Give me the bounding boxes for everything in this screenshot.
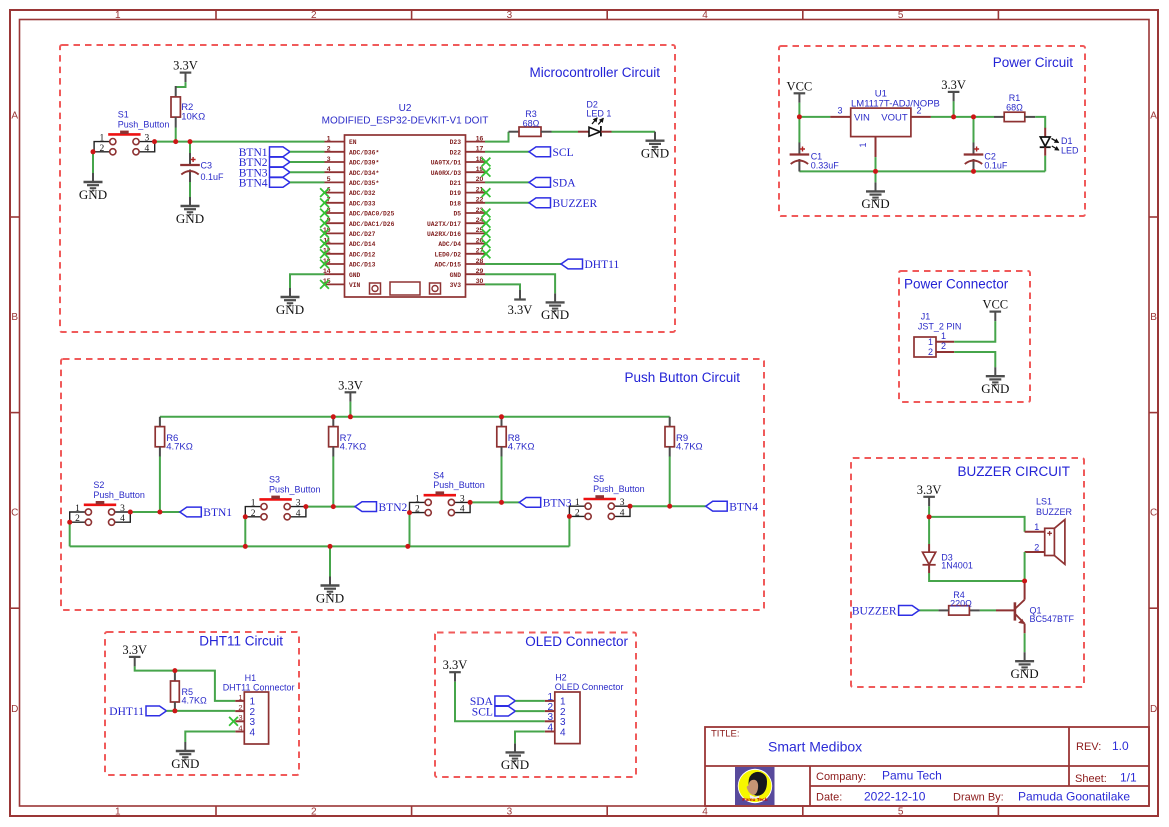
- svg-text:S3: S3: [269, 475, 280, 485]
- svg-text:REV:: REV:: [1076, 741, 1101, 753]
- svg-text:BTN4: BTN4: [729, 501, 758, 513]
- svg-text:ADC/D34*: ADC/D34*: [349, 170, 379, 177]
- svg-text:ADC/D12: ADC/D12: [349, 251, 376, 258]
- svg-text:4: 4: [702, 10, 708, 21]
- svg-text:2: 2: [75, 514, 80, 524]
- svg-text:Push Button Circuit: Push Button Circuit: [624, 370, 740, 385]
- svg-text:1: 1: [415, 494, 420, 504]
- svg-text:GND: GND: [79, 187, 107, 202]
- svg-text:Push_Button: Push_Button: [93, 490, 145, 500]
- svg-text:R1: R1: [1009, 93, 1021, 103]
- svg-text:ADC/DAC1/D26: ADC/DAC1/D26: [349, 221, 395, 228]
- svg-text:220Ω: 220Ω: [950, 598, 972, 608]
- svg-text:GND: GND: [276, 302, 304, 317]
- svg-text:SCL: SCL: [553, 147, 574, 159]
- svg-text:1N4001: 1N4001: [941, 561, 973, 571]
- svg-text:1/1: 1/1: [1120, 771, 1137, 785]
- svg-text:U2: U2: [399, 103, 412, 114]
- svg-text:VIN: VIN: [349, 282, 361, 289]
- svg-text:2022-12-10: 2022-12-10: [864, 790, 926, 804]
- svg-text:3.3V: 3.3V: [338, 378, 363, 392]
- svg-text:D18: D18: [450, 200, 462, 207]
- svg-text:BUZZER: BUZZER: [1036, 507, 1073, 517]
- svg-text:ADC/D14: ADC/D14: [349, 241, 376, 248]
- svg-text:4: 4: [327, 166, 331, 173]
- svg-text:Power Circuit: Power Circuit: [993, 55, 1074, 70]
- svg-text:3.3V: 3.3V: [508, 303, 533, 317]
- svg-text:4: 4: [702, 807, 708, 818]
- svg-text:0.1uF: 0.1uF: [984, 160, 1008, 170]
- svg-text:C: C: [1150, 507, 1157, 518]
- svg-text:D1: D1: [1061, 136, 1073, 146]
- svg-text:GND: GND: [541, 307, 569, 322]
- svg-text:GND: GND: [861, 196, 889, 211]
- svg-text:Push_Button: Push_Button: [433, 480, 485, 490]
- svg-text:MODIFIED_ESP32-DEVKIT-V1 DOIT: MODIFIED_ESP32-DEVKIT-V1 DOIT: [322, 116, 489, 127]
- svg-text:A: A: [1150, 111, 1157, 122]
- svg-text:UA0TX/D1: UA0TX/D1: [431, 160, 461, 167]
- svg-text:UA2TX/D17: UA2TX/D17: [427, 221, 461, 228]
- svg-text:1: 1: [858, 142, 868, 147]
- svg-text:Microcontroller Circuit: Microcontroller Circuit: [529, 65, 660, 80]
- svg-text:D5: D5: [453, 211, 461, 218]
- svg-text:SDA: SDA: [553, 178, 577, 190]
- svg-text:S1: S1: [118, 110, 129, 120]
- svg-text:C: C: [11, 507, 18, 518]
- svg-text:LS1: LS1: [1036, 497, 1052, 507]
- svg-text:GND: GND: [316, 590, 344, 605]
- svg-text:4: 4: [238, 723, 242, 732]
- svg-text:3: 3: [296, 499, 301, 509]
- svg-text:1: 1: [928, 337, 933, 347]
- svg-text:1: 1: [238, 693, 242, 702]
- svg-text:JST_2 PIN: JST_2 PIN: [918, 322, 962, 332]
- svg-text:4: 4: [145, 144, 150, 154]
- svg-text:Push_Button: Push_Button: [118, 119, 170, 129]
- svg-text:VIN: VIN: [854, 113, 870, 124]
- svg-text:3: 3: [837, 105, 842, 115]
- svg-text:Company:: Company:: [816, 771, 866, 783]
- svg-text:D19: D19: [450, 190, 462, 197]
- svg-text:GND: GND: [981, 381, 1009, 396]
- svg-text:ADC/D15: ADC/D15: [435, 262, 462, 269]
- svg-text:2: 2: [251, 509, 256, 519]
- svg-text:4: 4: [250, 727, 256, 738]
- svg-text:Push_Button: Push_Button: [593, 484, 645, 494]
- svg-text:B: B: [1150, 312, 1157, 323]
- svg-text:GND: GND: [349, 272, 361, 279]
- svg-text:UA2RX/D16: UA2RX/D16: [427, 231, 461, 238]
- svg-text:BTN2: BTN2: [379, 502, 408, 514]
- svg-text:1: 1: [75, 504, 80, 514]
- svg-text:3: 3: [145, 134, 150, 144]
- svg-text:3: 3: [507, 10, 513, 21]
- svg-text:S5: S5: [593, 474, 604, 484]
- svg-text:BTN4: BTN4: [239, 178, 268, 190]
- svg-text:BUZZER: BUZZER: [553, 198, 598, 210]
- svg-text:2: 2: [100, 144, 105, 154]
- svg-text:3: 3: [620, 498, 625, 508]
- svg-text:ADC/D33: ADC/D33: [349, 200, 376, 207]
- svg-text:20: 20: [476, 176, 484, 183]
- svg-text:BC547BTF: BC547BTF: [1030, 614, 1075, 624]
- svg-text:1.0: 1.0: [1112, 739, 1129, 753]
- svg-text:3.3V: 3.3V: [173, 59, 198, 73]
- svg-text:4.7KΩ: 4.7KΩ: [340, 442, 367, 453]
- svg-text:Pamu Tech: Pamu Tech: [742, 797, 767, 803]
- svg-text:10KΩ: 10KΩ: [181, 111, 205, 122]
- svg-text:VCC: VCC: [982, 298, 1008, 312]
- svg-text:D22: D22: [450, 149, 462, 156]
- svg-text:ADC/D13: ADC/D13: [349, 262, 376, 269]
- svg-text:1: 1: [327, 135, 331, 142]
- svg-text:30: 30: [476, 278, 484, 285]
- svg-text:S2: S2: [93, 480, 104, 490]
- svg-text:2: 2: [941, 341, 946, 351]
- svg-text:D: D: [11, 704, 18, 715]
- svg-text:2: 2: [928, 347, 933, 357]
- svg-text:S4: S4: [433, 470, 444, 480]
- svg-text:EN: EN: [349, 139, 357, 146]
- svg-text:ADC/D35*: ADC/D35*: [349, 180, 379, 187]
- svg-text:2: 2: [575, 508, 580, 518]
- svg-text:Sheet:: Sheet:: [1075, 773, 1107, 785]
- svg-text:BTN3: BTN3: [543, 498, 572, 510]
- svg-text:2: 2: [238, 703, 242, 712]
- svg-text:3V3: 3V3: [450, 282, 462, 289]
- svg-text:4: 4: [560, 727, 566, 738]
- svg-text:0.33uF: 0.33uF: [811, 160, 840, 170]
- svg-text:Date:: Date:: [816, 792, 842, 804]
- svg-text:GND: GND: [176, 211, 204, 226]
- svg-text:1: 1: [575, 498, 580, 508]
- svg-text:3.3V: 3.3V: [917, 483, 942, 497]
- svg-text:VOUT: VOUT: [881, 113, 908, 124]
- svg-text:TITLE:: TITLE:: [711, 729, 740, 740]
- svg-text:GND: GND: [501, 757, 529, 772]
- svg-text:68Ω: 68Ω: [1006, 103, 1023, 113]
- svg-text:17: 17: [476, 146, 484, 153]
- svg-text:B: B: [11, 312, 18, 323]
- svg-text:BUZZER CIRCUIT: BUZZER CIRCUIT: [958, 464, 1071, 479]
- svg-text:3.3V: 3.3V: [941, 78, 966, 92]
- svg-text:OLED Connector: OLED Connector: [525, 634, 628, 649]
- svg-text:H2: H2: [555, 673, 567, 683]
- svg-text:5: 5: [898, 10, 904, 21]
- svg-text:28: 28: [476, 258, 484, 265]
- svg-text:4: 4: [620, 508, 625, 518]
- svg-text:4.7KΩ: 4.7KΩ: [676, 442, 703, 453]
- svg-text:SCL: SCL: [472, 706, 493, 718]
- svg-text:4.7KΩ: 4.7KΩ: [508, 442, 535, 453]
- svg-text:0.1uF: 0.1uF: [201, 172, 225, 182]
- svg-text:D21: D21: [450, 180, 462, 187]
- svg-text:Drawn By:: Drawn By:: [953, 792, 1004, 804]
- svg-text:GND: GND: [641, 146, 669, 161]
- svg-text:Pamuda Goonatilake: Pamuda Goonatilake: [1018, 790, 1130, 804]
- svg-text:ADC/D32: ADC/D32: [349, 190, 376, 197]
- svg-text:UA0RX/D3: UA0RX/D3: [431, 170, 461, 177]
- svg-text:5: 5: [327, 176, 331, 183]
- svg-text:DHT11: DHT11: [585, 259, 620, 271]
- svg-text:DHT11 Connector: DHT11 Connector: [223, 682, 295, 692]
- svg-text:1: 1: [941, 331, 946, 341]
- svg-text:4: 4: [460, 505, 465, 515]
- svg-text:Power Connector: Power Connector: [904, 277, 1009, 292]
- svg-text:ADC/D39*: ADC/D39*: [349, 160, 379, 167]
- svg-text:4: 4: [547, 722, 553, 733]
- svg-text:LM1117T-ADJ/NOPB: LM1117T-ADJ/NOPB: [851, 99, 940, 110]
- svg-text:22: 22: [476, 197, 484, 204]
- svg-text:4: 4: [296, 509, 301, 519]
- svg-text:1: 1: [115, 807, 121, 818]
- svg-text:LED 1: LED 1: [586, 109, 611, 119]
- svg-text:GND: GND: [450, 272, 462, 279]
- svg-text:Push_Button: Push_Button: [269, 484, 321, 494]
- svg-text:1: 1: [251, 499, 256, 509]
- svg-text:D23: D23: [450, 139, 462, 146]
- svg-text:ADC/DAC0/D25: ADC/DAC0/D25: [349, 211, 395, 218]
- svg-text:29: 29: [476, 268, 484, 275]
- svg-text:2: 2: [415, 505, 420, 515]
- svg-text:DHT11 Circuit: DHT11 Circuit: [199, 634, 283, 649]
- svg-text:LED0/D2: LED0/D2: [435, 251, 462, 258]
- svg-text:3.3V: 3.3V: [122, 643, 147, 657]
- svg-text:1: 1: [100, 134, 105, 144]
- svg-text:2: 2: [311, 10, 317, 21]
- svg-text:D: D: [1150, 704, 1157, 715]
- svg-text:4: 4: [120, 514, 125, 524]
- svg-text:C3: C3: [201, 161, 213, 171]
- svg-text:J1: J1: [921, 312, 931, 322]
- svg-text:3: 3: [120, 504, 125, 514]
- svg-text:GND: GND: [1011, 666, 1039, 681]
- svg-text:LED: LED: [1061, 146, 1079, 156]
- svg-text:3: 3: [507, 807, 513, 818]
- svg-text:1: 1: [1034, 522, 1039, 532]
- svg-text:1: 1: [115, 10, 121, 21]
- svg-text:ADC/D27: ADC/D27: [349, 231, 376, 238]
- svg-text:Pamu Tech: Pamu Tech: [882, 769, 942, 783]
- svg-text:Smart Medibox: Smart Medibox: [768, 739, 862, 755]
- svg-text:GND: GND: [171, 756, 199, 771]
- svg-text:16: 16: [476, 135, 484, 142]
- svg-text:2: 2: [311, 807, 317, 818]
- svg-text:2: 2: [327, 146, 331, 153]
- svg-text:R3: R3: [525, 109, 537, 119]
- svg-text:3.3V: 3.3V: [443, 658, 468, 672]
- svg-text:ADC/D36*: ADC/D36*: [349, 149, 379, 156]
- svg-text:3: 3: [460, 494, 465, 504]
- svg-text:ADC/D4: ADC/D4: [438, 241, 461, 248]
- svg-text:DHT11: DHT11: [109, 706, 144, 718]
- svg-text:3: 3: [238, 713, 242, 722]
- svg-text:VCC: VCC: [787, 79, 813, 93]
- svg-text:5: 5: [898, 807, 904, 818]
- svg-text:2: 2: [1034, 542, 1039, 552]
- svg-text:4.7KΩ: 4.7KΩ: [182, 696, 208, 706]
- svg-text:A: A: [11, 111, 18, 122]
- svg-text:3: 3: [327, 156, 331, 163]
- svg-text:BUZZER: BUZZER: [852, 606, 897, 618]
- svg-text:BTN1: BTN1: [203, 507, 232, 519]
- svg-text:OLED Connector: OLED Connector: [555, 682, 624, 692]
- svg-text:4.7KΩ: 4.7KΩ: [166, 442, 193, 453]
- svg-text:2: 2: [917, 105, 922, 115]
- svg-text:68Ω: 68Ω: [523, 119, 540, 129]
